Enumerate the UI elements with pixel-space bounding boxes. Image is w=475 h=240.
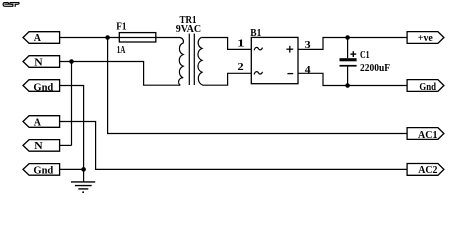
svg-text:1: 1 bbox=[237, 39, 244, 50]
svg-text:F1: F1 bbox=[116, 21, 126, 32]
svg-text:9VAC: 9VAC bbox=[176, 24, 201, 35]
svg-text:1A: 1A bbox=[117, 45, 126, 56]
svg-text:Gnd: Gnd bbox=[33, 165, 53, 176]
svg-text:+ve: +ve bbox=[418, 33, 434, 44]
svg-text:4: 4 bbox=[305, 65, 311, 76]
svg-text:B1: B1 bbox=[250, 28, 261, 39]
svg-text:N: N bbox=[34, 141, 43, 152]
svg-text:A: A bbox=[34, 33, 42, 44]
svg-text:2: 2 bbox=[237, 62, 243, 73]
svg-text:C1: C1 bbox=[360, 50, 370, 61]
svg-text:AC2: AC2 bbox=[418, 165, 437, 176]
svg-text:2200uF: 2200uF bbox=[360, 63, 390, 74]
svg-text:AC1: AC1 bbox=[418, 130, 438, 141]
svg-text:Gnd: Gnd bbox=[419, 82, 436, 93]
svg-text:3: 3 bbox=[305, 40, 311, 51]
svg-text:N: N bbox=[34, 57, 43, 68]
svg-text:Gnd: Gnd bbox=[33, 82, 53, 93]
svg-text:A: A bbox=[34, 117, 42, 128]
